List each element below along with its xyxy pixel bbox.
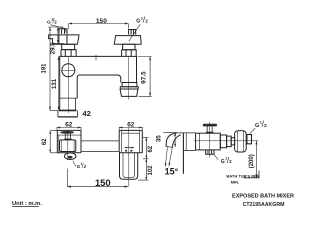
centreline vertical [209,122,211,158]
valve block inner lines [61,140,74,151]
svg-text:97.5: 97.5 [140,71,147,84]
valve block [60,140,76,152]
leader G1/2 left [50,25,66,33]
svg-text:150: 150 [95,177,111,188]
label G1/2 side bottom [221,157,232,166]
svg-text:EXPOSED BATH MIXER: EXPOSED BATH MIXER [232,193,294,199]
right square inner verticals [122,131,140,153]
stem flange [64,139,71,140]
svg-text:Unit : m.m.: Unit : m.m. [12,201,42,207]
right square inner horizontal [122,132,140,134]
dim 62 left-side [50,131,57,153]
svg-text:MIN.: MIN. [231,179,239,184]
spout outer curve [166,133,177,147]
label G1/2 left valve [47,18,57,26]
left bonnet ring2 [61,50,76,57]
handle stem [207,126,212,131]
left square inner horizontal [57,135,81,153]
right outlet nozzle [120,89,138,96]
leader G1/2 top view [73,161,76,166]
leg line [182,133,184,174]
right outlet ring1 [122,83,137,87]
left valve nut [59,29,67,34]
dim 131 [58,56,60,110]
svg-text:2: 2 [264,123,267,129]
dim 150 bottom [67,169,128,187]
left leg flange [58,110,78,117]
right outlet ring2 [120,87,138,89]
svg-text:62: 62 [148,145,154,152]
svg-text:62: 62 [42,138,48,145]
handle cap [203,124,217,127]
label G1/2 top view [77,162,87,169]
left leg joint [60,97,77,99]
circle crosshair horizontal [62,69,76,71]
svg-text:191: 191 [41,63,47,74]
leader G1/2 right [129,24,140,41]
svg-text:1: 1 [225,157,227,161]
spout outlet face [166,146,172,147]
left valve handle [49,35,79,44]
right bonnet ring2 [122,50,137,57]
bottom oval outlet [65,153,76,160]
lever ellipse [60,131,74,134]
label G1/2 side wall [255,120,267,129]
svg-text:150: 150 [96,18,107,25]
svg-text:131: 131 [51,78,58,89]
spout top edge [177,132,196,134]
spout inner curve [172,135,181,148]
svg-text:62: 62 [127,122,135,129]
dim 97.5 [138,57,152,97]
dim 62 right-top [119,127,142,130]
pipe [231,138,234,145]
15 deg tick [165,163,171,167]
svg-text:62: 62 [65,122,73,129]
left leg inner edge below joint [75,98,77,110]
leader G1/2 side bottom [214,154,218,159]
indicator dots [125,150,127,152]
svg-text:(200): (200) [249,154,255,168]
leg joint line 2 [185,133,187,150]
right leg centreline [127,57,129,100]
diverter circle [62,64,75,77]
15 deg lines [165,147,172,166]
body outline [60,56,137,110]
left leg base edge [59,109,76,111]
svg-text:1: 1 [51,18,53,22]
lever stem [65,134,70,139]
dim 29.5 [53,27,64,43]
svg-text:2: 2 [145,19,148,24]
left leg centreline [68,57,70,113]
svg-text:BATH TUB'S RIM.: BATH TUB'S RIM. [226,174,259,179]
dim 102 [138,159,148,180]
label G1/2 right valve [136,15,148,24]
left square escutcheon [57,130,81,152]
spout base bottom edge [183,149,196,151]
svg-text:1: 1 [81,162,83,166]
bath rim reference [244,171,259,178]
wall flange disc [235,131,247,152]
right bonnet ring1 [123,44,135,50]
spout top view inner [123,153,135,178]
top centre tick [95,55,97,61]
svg-text:29.5: 29.5 [49,42,56,55]
svg-text:G: G [136,19,140,25]
spout centreline [128,128,130,186]
body block [196,133,221,150]
bridge cutout [77,75,121,98]
svg-text:G: G [255,123,259,129]
svg-text:35: 35 [156,135,163,142]
svg-text:2: 2 [229,159,232,164]
svg-text:CT2195AAKGRM: CT2195AAKGRM [243,202,285,208]
spout top view outer [120,153,138,179]
dim 191 [48,27,64,110]
dim 150 top arrows [69,23,129,25]
ring2 [227,136,232,147]
dim 62 left-top [57,127,81,130]
dim 35 [163,132,176,147]
right valve handle [114,36,141,45]
dim (200) [255,141,257,178]
indicator bar [125,147,134,149]
stem base flange [206,132,214,134]
bottom outlet [206,150,214,154]
dim 62 right-side [143,137,148,158]
connecting bar [81,141,119,152]
ring1 [220,135,226,148]
left unit centreline [67,131,69,160]
svg-text:15°: 15° [165,166,179,176]
left bonnet ring1 [62,44,75,49]
hex connector [247,135,252,144]
centreline horizontal [194,140,258,142]
right square escutcheon [119,130,142,152]
svg-text:42: 42 [82,109,90,118]
dim 150 top line [69,24,129,29]
leader G1/2 side wall [250,128,256,134]
right valve nut [129,30,136,35]
svg-text:102: 102 [148,165,154,176]
